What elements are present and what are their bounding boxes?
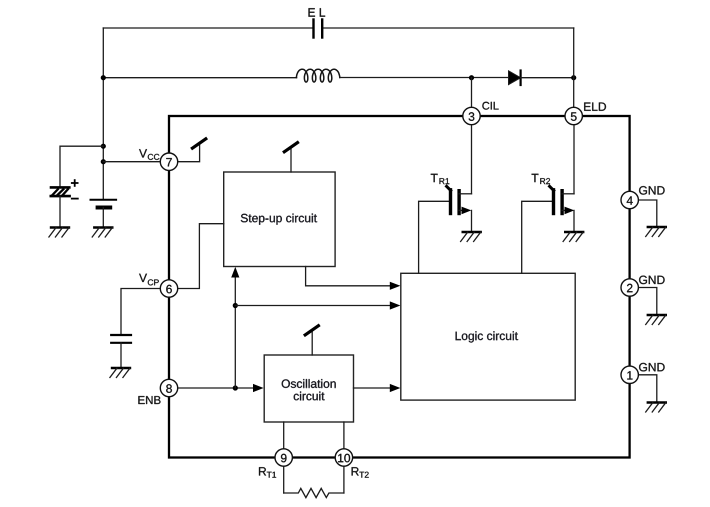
- pad symbol above step-up circuit: [290, 149, 292, 173]
- node: junction ENB column: [233, 385, 238, 390]
- transistor TR1: [419, 174, 472, 273]
- capacitor C2: [111, 335, 131, 343]
- node: junction to electrolytic cap branch: [101, 144, 106, 149]
- label E L: [309, 8, 326, 16]
- arrow into logic circuit (mid): [390, 301, 401, 309]
- resistor RT: [284, 488, 344, 497]
- pin 5: [565, 107, 582, 124]
- wire: pin 4 to ground: [638, 200, 657, 227]
- wire: diode to ELD vertical: [521, 77, 574, 79]
- arrow into step-up circuit bottom: [231, 267, 239, 278]
- label Step-up circuit: [241, 214, 317, 225]
- arrow into logic circuit (bottom): [390, 384, 401, 392]
- ground under TR2: [563, 232, 583, 242]
- battery B (cell): [91, 200, 117, 208]
- pin 4: [621, 191, 638, 208]
- logic circuit box U-C: [401, 273, 575, 400]
- TR2 gate plate: [552, 190, 555, 214]
- wire: pin 6 to external cap: [121, 289, 161, 335]
- label ELD: [584, 103, 606, 111]
- wire: oscillation to pin 10: [343, 422, 345, 458]
- label TR2: [532, 174, 539, 182]
- pin 6: [160, 280, 177, 297]
- TR2 source stub with arrow: [562, 209, 566, 211]
- label ENB: [138, 396, 160, 404]
- label +: [72, 180, 78, 186]
- wire: inductor feed left: [103, 77, 296, 79]
- pin 7: [160, 153, 177, 170]
- IC U1 boundary: [169, 116, 630, 458]
- label GND (pin 4): [639, 186, 665, 195]
- label Logic circuit: [456, 331, 518, 342]
- wire: VCC feed to pin 7: [103, 161, 160, 163]
- wire: C1 to ground: [59, 196, 61, 227]
- inductor L: [296, 69, 339, 82]
- wire: branch to electrolytic capacitor: [60, 146, 103, 186]
- arrow into oscillation circuit: [253, 384, 264, 392]
- step-up circuit box U-A: [224, 172, 335, 267]
- capacitor EL: [314, 20, 323, 38]
- wire: pin 8 to oscillation circuit: [178, 387, 256, 389]
- pin 9: [275, 449, 292, 466]
- pad symbol at VCC: [178, 145, 200, 162]
- wire: battery to ground: [102, 208, 104, 228]
- TR1 gate plate: [449, 190, 452, 214]
- ground at pin 1: [646, 403, 666, 413]
- wire: top EL feed right segment: [323, 27, 573, 29]
- ground under battery: [92, 228, 112, 238]
- TR1 drain stub: [459, 193, 471, 195]
- node: junction at CIL column: [469, 75, 474, 80]
- pin 1: [621, 366, 638, 383]
- wire: pin 2 to ground: [638, 288, 657, 316]
- oscillation circuit box U-B: [264, 355, 353, 422]
- node: junction mid feed to logic: [233, 303, 238, 308]
- wire: ENB column up to step-up circuit: [234, 276, 236, 388]
- TR1 source stub with arrow: [459, 209, 463, 211]
- pin 10: [335, 449, 352, 466]
- capacitor C1 (electrolytic, hatched plate): [51, 187, 70, 196]
- ground under C1: [49, 228, 69, 238]
- label CIL: [482, 102, 498, 110]
- wire: step-up output to logic circuit: [306, 267, 390, 286]
- pin 3: [463, 107, 480, 124]
- wire: TR1 source to ground: [471, 210, 473, 232]
- label Oscillation circuit: [282, 379, 336, 388]
- node: junction VCC feed: [101, 159, 106, 164]
- arrow into logic circuit (top): [390, 282, 401, 290]
- wire: TR2 source to ground: [573, 210, 575, 232]
- label RT1: [259, 467, 266, 475]
- wire: oscillation to logic circuit: [354, 387, 391, 389]
- label GND (pin 1): [639, 363, 665, 372]
- transistor TR2: [522, 174, 575, 273]
- label VCP: [139, 274, 147, 282]
- diode D: [509, 71, 521, 85]
- wire: mid feed to logic circuit: [235, 305, 390, 307]
- wire: pin 5 to TR2 drain: [573, 116, 575, 194]
- wire: pin 1 to ground: [638, 375, 657, 403]
- ground under TR1: [461, 232, 481, 242]
- pin 2: [621, 279, 638, 296]
- label VCC: [139, 149, 147, 157]
- label GND (pin 2): [639, 276, 665, 285]
- label TR1: [431, 174, 438, 182]
- node: junction at ELD column: [571, 75, 576, 80]
- wire: TR1 gate feed: [419, 201, 449, 273]
- TR2 drain stub: [562, 193, 574, 195]
- node: junction left supply / inductor feed: [101, 75, 106, 80]
- label -: [72, 198, 78, 200]
- wire: C2 to ground: [120, 343, 122, 368]
- wire: pin 9 lead down: [283, 466, 285, 493]
- wire: left supply vertical: [102, 28, 104, 199]
- wire: pin 10 lead down: [343, 466, 345, 493]
- wire: step-up left to pin 6: [178, 224, 224, 289]
- wire: ELD vertical from top wire to pin 5: [573, 28, 575, 116]
- TR1 channel plate: [457, 191, 460, 214]
- label RT2: [352, 467, 359, 475]
- ground at pin 2: [646, 315, 666, 325]
- pin 8: [160, 379, 177, 396]
- TR2 channel plate: [560, 191, 563, 214]
- wire: TR2 gate feed: [522, 201, 552, 273]
- ground at pin 4: [646, 227, 666, 237]
- wire: top EL feed left segment: [103, 27, 312, 29]
- wire: CIL junction down to pin 3: [471, 78, 473, 116]
- ground under C2: [110, 368, 130, 378]
- wire: pin 3 to TR1 drain: [471, 116, 473, 194]
- pad symbol above oscillation circuit: [311, 332, 313, 356]
- wire: oscillation to pin 9: [283, 422, 285, 458]
- wire: inductor to diode: [340, 77, 509, 79]
